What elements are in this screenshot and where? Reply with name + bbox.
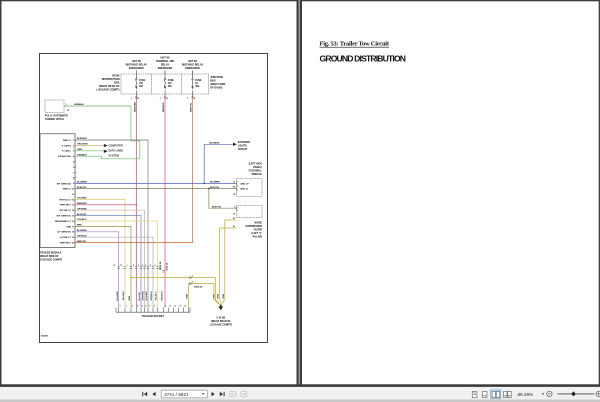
svg-text:GRN: GRN (77, 149, 82, 151)
svg-text:LH TURN SIG: LH TURN SIG (57, 232, 71, 234)
footwell module dashed box (237, 179, 263, 197)
two page continuous icon (504, 391, 512, 397)
svg-text:BRN: BRN (129, 295, 131, 300)
svg-text:4: 4 (133, 264, 134, 267)
svg-text:RED/YEL: RED/YEL (191, 102, 193, 112)
svg-text:BRK LT: BRK LT (63, 189, 72, 191)
svg-text:YEL/RED: YEL/RED (77, 198, 87, 200)
module pin numbers 1-20 (72, 140, 75, 245)
label HOT W/ TERMINAL 30B RELAY ENERGIZED (fuse 143) (156, 57, 174, 71)
trailer socket comb (116, 308, 190, 313)
svg-text:X258 1B: X258 1B (167, 262, 169, 271)
wire GRN/BLK from hitch looping around data-lines cluster to module pin 4 (67, 104, 140, 159)
connector row pin numbers (113, 264, 161, 271)
computer data lines arrows and caption (104, 144, 124, 158)
next page button (212, 392, 215, 396)
wire BRN ground bus from socket BRN tee through X284 pin 1 to Z-10 (130, 277, 221, 305)
socket pin numbers (120, 305, 187, 308)
wire BRN from trailer socket pin 13 through X284 pin 2 to Z-10 (187, 284, 221, 308)
wire GRN pin 3 to data lines arrow (75, 149, 104, 151)
fuse F19 30A (192, 74, 193, 98)
power feed stub fuse 19 (192, 71, 194, 75)
svg-text:GRY/BLK: GRY/BLK (151, 291, 153, 301)
svg-text:2: 2 (126, 306, 127, 308)
trailer module box (40, 134, 75, 248)
wire BLU/YEL pin 15 to trailer socket (75, 214, 141, 308)
svg-text:YEL/BLU: YEL/BLU (77, 219, 87, 221)
wire BLU/BRN branch to exterior lights circuit (204, 143, 237, 184)
svg-text:5: 5 (138, 265, 139, 267)
svg-text:PILLAR): PILLAR) (253, 236, 263, 239)
svg-text:6: 6 (145, 306, 146, 308)
svg-text:BLU/BRN: BLU/BRN (210, 143, 220, 145)
svg-text:BLK/WHT: BLK/WHT (77, 138, 88, 140)
noise suppressor filter dashed box (237, 206, 263, 218)
zoom slider (558, 393, 595, 395)
svg-text:BLK/WHT: BLK/WHT (146, 290, 148, 300)
svg-text:ENERGIZED: ENERGIZED (185, 67, 200, 70)
svg-text:COMPUTER: COMPUTER (109, 145, 124, 148)
svg-text:4: 4 (137, 305, 138, 308)
right page: figure caption (320, 41, 390, 48)
connector pin 1 under fuse 19 (187, 98, 196, 100)
svg-text:7: 7 (149, 306, 150, 308)
label HOT W/ BISTABLE RELAY ENERGIZED (fuse 19) (182, 60, 204, 70)
fuse F100 20A (136, 74, 137, 98)
svg-text:8: 8 (154, 306, 155, 308)
svg-text:20A: 20A (168, 85, 173, 88)
connector ticks under fuses (135, 97, 194, 98)
svg-text:RED/BLK: RED/BLK (162, 291, 164, 301)
svg-text:BLU/RED: BLU/RED (77, 230, 87, 232)
svg-text:BLK/YEL: BLK/YEL (77, 187, 87, 189)
svg-text:RH TAIL LT: RH TAIL LT (59, 209, 71, 212)
svg-text:DATA LINES: DATA LINES (109, 150, 124, 153)
wire RED/YEL from fuse 19 down to module pin 20 (75, 98, 193, 243)
svg-text:BRN: BRN (223, 293, 225, 298)
svg-text:363001: 363001 (41, 336, 49, 338)
module pin ticks (75, 140, 76, 243)
continuous layout icon (482, 391, 487, 397)
svg-text:BLK/YEL: BLK/YEL (210, 187, 220, 189)
svg-text:1: 1 (127, 265, 128, 267)
label FULLY AUTOMATIC TOWING HITCH (45, 115, 68, 122)
svg-text:BRN: BRN (187, 293, 189, 298)
svg-text:3: 3 (142, 265, 143, 267)
schematic frame (40, 54, 268, 343)
first page button (142, 392, 147, 396)
svg-text:BRK LT: BRK LT (241, 189, 250, 191)
svg-text:GND: GND (66, 226, 71, 228)
wire ORG/GRN pin 2 to data lines arrow (75, 144, 104, 146)
trailer socket inline connector row ticks (117, 267, 164, 272)
zoom in button (clipped at edge) (596, 391, 600, 396)
svg-text:2: 2 (145, 265, 146, 267)
label JUNCTION BOX (RIGHT SIDE OF DASH) (210, 76, 225, 90)
svg-text:X259 1B: X259 1B (160, 261, 162, 270)
svg-text:30A: 30A (195, 85, 200, 88)
svg-text:BRN: BRN (218, 293, 220, 298)
svg-text:4741 / 5821: 4741 / 5821 (164, 392, 189, 397)
svg-text:RED/YEL: RED/YEL (77, 241, 87, 243)
zoom out button (547, 391, 552, 396)
connector X284 pin 2 marks (189, 281, 194, 285)
svg-text:LUGGAGE COMPT): LUGGAGE COMPT) (210, 324, 232, 327)
svg-text:TOWING HITCH: TOWING HITCH (45, 118, 64, 121)
wire BRN from footwell module ground to Z-10 (221, 218, 237, 305)
label NOISE SUPPRESSOR FILTER (LEFT C PILLAR) (245, 222, 262, 239)
svg-text:ENERGIZED: ENERGIZED (129, 67, 144, 70)
svg-text:12: 12 (120, 265, 122, 267)
svg-text:X284 1B: X284 1B (194, 285, 203, 288)
svg-text:FUSE: FUSE (168, 80, 175, 82)
filter pin 2 (234, 206, 238, 211)
svg-text:LIN BUS SIG: LIN BUS SIG (58, 156, 71, 158)
svg-text:GRN/BLK: GRN/BLK (77, 154, 87, 156)
svg-text:BLU/YEL: BLU/YEL (139, 291, 141, 301)
svg-text:LUGGAGE COMPT): LUGGAGE COMPT) (96, 89, 119, 92)
module internal signal labels (55, 140, 72, 245)
svg-text:6: 6 (155, 265, 156, 267)
svg-text:9: 9 (165, 306, 166, 308)
wire BLU/RED pin 18 to trailer socket (75, 230, 119, 308)
previous view (disabled) (230, 391, 236, 397)
right page (301, 0, 600, 385)
next view (disabled) (241, 391, 247, 397)
wire BLK/YEL branch to noise suppressor filter pin 2 (209, 189, 237, 209)
svg-text:LH TAIL LT: LH TAIL LT (60, 236, 72, 239)
left page (1, 0, 298, 385)
svg-text:ENERGIZED: ENERGIZED (158, 67, 173, 70)
svg-text:RR FOG LT: RR FOG LT (59, 199, 71, 201)
svg-text:OF DASH): OF DASH) (210, 87, 222, 90)
ground Z-10 symbol (218, 305, 223, 311)
fuse F143 20A (164, 74, 165, 98)
wire BLK/WHT pin 1 to trailer socket (75, 138, 148, 307)
svg-text:LUGGAGE COMPT): LUGGAGE COMPT) (40, 259, 62, 262)
wire RED/WHT pin 13 to fuse 100 feed (75, 203, 137, 206)
svg-text:GRN/BLK: GRN/BLK (74, 104, 84, 106)
svg-text:BLU/BRN: BLU/BRN (77, 182, 87, 184)
power feed stub fuse 100 (135, 71, 137, 75)
fuse carrier dashed box (rear distribution box / junction box) (121, 74, 209, 94)
svg-text:GRY/RED: GRY/RED (143, 291, 145, 301)
svg-text:SYSTEM: SYSTEM (109, 155, 119, 158)
svg-text:PWR SPLY: PWR SPLY (60, 205, 72, 207)
connector pin 1 under fuse 100 (131, 98, 140, 100)
single page layout icon (472, 391, 477, 397)
svg-text:Fig. 53: Trailer Tow Circuit: Fig. 53: Trailer Tow Circuit (320, 41, 390, 48)
footwell pin 13 END LP (233, 182, 249, 186)
svg-text:GROUND DISTRIBUTION: GROUND DISTRIBUTION (320, 53, 407, 63)
power feed stub fuse 143 (164, 71, 166, 75)
svg-text:MODULE: MODULE (252, 173, 263, 176)
svg-text:RH TURN SIG: RH TURN SIG (57, 183, 72, 185)
towing hitch dashed box (45, 100, 64, 113)
wire RED/GRN from fuse 100 down to trailer socket (134, 98, 136, 308)
label Z-10 SB (RIGHT REAR OF LUGGAGE COMPT) (210, 317, 232, 327)
svg-text:8: 8 (150, 265, 151, 267)
filter pin 16 (233, 214, 236, 216)
wire YEL/RED pin 12 to trailer socket (75, 198, 125, 308)
svg-text:RED/GRN: RED/GRN (134, 101, 136, 112)
footwell pin 16 (233, 194, 236, 196)
svg-text:GRY/BLK: GRY/BLK (77, 235, 87, 237)
wire BRN from noise filter ground to Z-10 (218, 226, 237, 303)
svg-text:13: 13 (184, 306, 186, 308)
svg-text:TRAILER SOCKET: TRAILER SOCKET (142, 315, 164, 318)
svg-text:BLU/BRN: BLU/BRN (210, 182, 220, 184)
svg-text:RED/BLK: RED/BLK (163, 102, 165, 112)
label TRAILER MODULE (RIGHT SIDE OF LUGGAGE COMPT) (40, 252, 62, 262)
label REAR DISTRIBUTION BOX (96, 75, 120, 92)
svg-text:YEL/BLU: YEL/BLU (156, 291, 158, 300)
svg-text:GRY/RED: GRY/RED (77, 208, 87, 210)
footwell pin 40 BRK LT (233, 186, 249, 191)
svg-text:BLK/YEL: BLK/YEL (212, 206, 222, 208)
svg-text:PWR SPLY: PWR SPLY (60, 243, 72, 245)
svg-text:BRN: BRN (77, 225, 82, 227)
svg-text:FUSE: FUSE (139, 80, 146, 82)
svg-text:13: 13 (113, 265, 115, 267)
wire BLK/YEL pin 10 to footwell module pin 40 (75, 187, 237, 190)
svg-text:END LP: END LP (241, 183, 250, 185)
page number field (161, 390, 207, 398)
wire GRN/BLK pin 4 stub (75, 154, 102, 156)
svg-text:5: 5 (142, 306, 143, 308)
svg-text:K CAN-H: K CAN-H (62, 144, 72, 147)
svg-text:ORG/GRN: ORG/GRN (77, 144, 88, 146)
wire GRY/RED pin 14 to trailer socket (75, 208, 145, 307)
svg-text:3: 3 (132, 306, 133, 308)
label HOT W/ BISTABLE RELAY ENERGIZED (fuse 100) (126, 60, 148, 70)
DIAGRAM-CONTENT (40, 54, 268, 343)
svg-text:89.48%: 89.48% (518, 392, 534, 397)
svg-text:K CAN-L: K CAN-L (62, 150, 72, 153)
svg-text:20A: 20A (139, 85, 144, 88)
connector X284 pin 1 marks (189, 275, 194, 279)
svg-text:1: 1 (120, 306, 121, 308)
two page layout icon (selected) (491, 390, 501, 399)
svg-text:10: 10 (174, 306, 176, 308)
svg-text:12: 12 (179, 306, 181, 308)
svg-text:YEL/RED: YEL/RED (123, 291, 125, 301)
wire BLU/BRN pin 9 to footwell module pin 13 (75, 182, 237, 185)
svg-text:FUSE: FUSE (195, 80, 202, 82)
last page button (220, 392, 225, 396)
wire BRN pin 17 to trailer socket (75, 225, 131, 308)
svg-text:BLU/RED: BLU/RED (117, 291, 119, 301)
wire GRY/BLK pin 19 to trailer socket (75, 235, 153, 307)
wire RED/BLK from fuse 143 down to trailer socket (163, 98, 165, 308)
label (LEFT KICK PANEL) FOOTWELL MODULE (249, 163, 263, 177)
wire YEL/BLU pin 16 to trailer socket (75, 219, 158, 307)
TOOLBAR (0, 384, 600, 402)
svg-text:BLU/YEL: BLU/YEL (77, 214, 87, 216)
hitch pin 1 (64, 104, 68, 106)
svg-text:BRK LT: BRK LT (63, 140, 72, 142)
prev page button (152, 392, 155, 396)
svg-text:RED/WHT: RED/WHT (77, 203, 88, 205)
svg-text:CIRCUIT: CIRCUIT (238, 148, 248, 151)
label EXTERIOR LIGHTS CIRCUIT (238, 141, 250, 151)
svg-text:REVERSING LT: REVERSING LT (55, 221, 72, 223)
svg-text:RH TURN SIG: RH TURN SIG (57, 216, 72, 218)
svg-text:11: 11 (169, 306, 171, 308)
connector pin 1 under fuse 143 (160, 98, 169, 100)
